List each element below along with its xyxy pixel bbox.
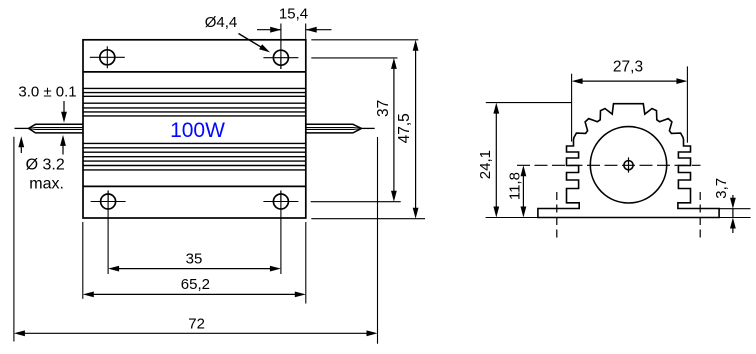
dimension 11,8 <box>522 175 524 209</box>
top flange line <box>83 71 306 73</box>
resistor body outline <box>83 40 306 218</box>
svg-text:27,3: 27,3 <box>613 58 643 75</box>
bottom flange line <box>83 185 306 187</box>
dimension 35 <box>117 268 272 270</box>
mounting hole bottom-right <box>273 194 288 209</box>
svg-text:11,8: 11,8 <box>507 172 524 200</box>
svg-text:65,2: 65,2 <box>181 276 210 293</box>
svg-text:35: 35 <box>186 251 203 268</box>
dimension 24,1 <box>486 102 572 104</box>
svg-text:72: 72 <box>188 315 205 332</box>
mounting hole bottom-left <box>101 194 116 209</box>
screw centreline right (dashed) <box>699 192 701 238</box>
horizontal centreline (dashed) <box>517 164 701 166</box>
dimension 37 <box>311 57 397 59</box>
dimension 72 <box>13 137 15 342</box>
svg-text:3.0 ± 0.1: 3.0 ± 0.1 <box>18 84 76 101</box>
svg-text:max.: max. <box>29 176 64 193</box>
left lead wire <box>15 127 29 129</box>
right lead wire <box>306 124 362 133</box>
svg-text:Ø4,4: Ø4,4 <box>205 14 238 31</box>
screw centreline left (dashed) <box>556 192 558 238</box>
dimension 47,5 <box>311 39 418 41</box>
svg-text:47,5: 47,5 <box>396 113 413 143</box>
svg-text:100W: 100W <box>170 119 225 142</box>
svg-text:37: 37 <box>375 100 392 117</box>
hole bottom-left vertical extension <box>107 191 109 275</box>
hole bottom-right vertical extension <box>280 191 282 275</box>
dimension 65,2 <box>82 222 84 299</box>
mounting hole top-right <box>273 50 288 65</box>
svg-text:15,4: 15,4 <box>279 6 308 23</box>
bore circle <box>590 127 666 203</box>
centre hole <box>624 161 633 170</box>
svg-text:3,7: 3,7 <box>713 178 730 199</box>
svg-text:24,1: 24,1 <box>477 150 494 179</box>
svg-text:Ø 3.2: Ø 3.2 <box>26 157 65 174</box>
mounting hole top-left <box>100 50 115 65</box>
dimension 27,3 <box>571 74 573 142</box>
hole top-right vertical centreline <box>280 24 282 70</box>
centre hole vertical tick <box>628 157 630 172</box>
heatsink profile (side view) <box>538 104 719 218</box>
dimension 3,7 <box>719 208 750 210</box>
heatsink fin lines <box>83 87 306 89</box>
